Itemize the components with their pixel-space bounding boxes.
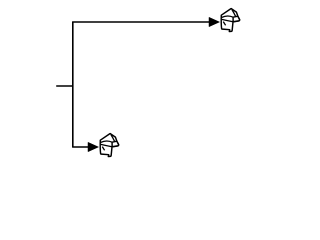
wire: bottom horizontal: [72, 146, 89, 148]
wire: vertical bus: [72, 22, 74, 147]
arrowhead bottom: [88, 142, 99, 151]
lamp top: [221, 9, 239, 32]
wire: top horizontal: [72, 21, 210, 23]
wire: input stub: [56, 85, 73, 87]
arrowhead top: [209, 17, 220, 26]
lamp bottom: [100, 134, 118, 157]
